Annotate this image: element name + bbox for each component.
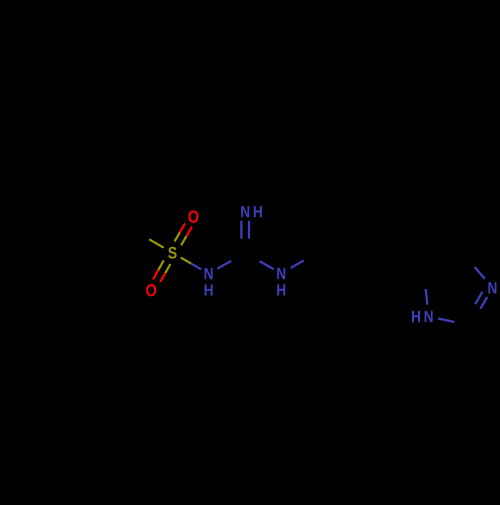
bond S=O top [181,236,186,245]
atom ring N1 HN [425,311,433,322]
atom N1 sulfonamide NH [205,268,213,279]
atom S sulfonyl [168,247,176,259]
bond N-C guanidine [217,261,231,269]
atom O1 sulfonyl oxygen top [188,210,198,222]
bond ring N1-C2 [438,319,454,322]
bond C=NH imine [248,239,250,257]
bond N2-CH2 [291,260,304,267]
bond S=O bottom [158,260,163,270]
bond ring C4=C5 [444,255,464,264]
bond ring C2=N3 [473,309,480,321]
bond C-N2 [245,253,259,261]
bond CH2-CH2 b [352,263,370,273]
atom N2 guanidine NH [277,268,285,279]
bond methyl C-S [135,231,150,239]
bond ring N3-C4 [475,267,485,279]
atom O2 sulfonyl oxygen bottom [146,284,156,296]
bond CH2-C5 [388,253,406,263]
bond S-N sulfonamide [181,258,191,264]
bond ring C5-N1 [424,274,426,290]
atom N imine NH [241,206,249,217]
atom ring N3 [488,282,496,293]
bond CH2-CH2 a [317,253,335,263]
